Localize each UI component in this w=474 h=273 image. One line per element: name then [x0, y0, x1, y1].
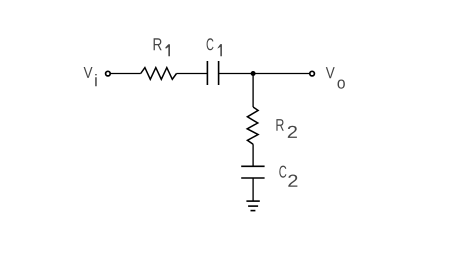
ground — [246, 201, 259, 211]
wire R1 to C1 — [177, 73, 208, 75]
node Vo label — [326, 67, 345, 89]
wire junction down to R2 — [252, 74, 254, 108]
label R2 — [276, 119, 297, 138]
terminal input — [106, 71, 111, 76]
wire Vi terminal to R1 — [111, 73, 141, 75]
capacitor C2 — [241, 166, 264, 178]
label R1 — [154, 38, 170, 56]
wire R2 to C2 — [252, 144, 254, 166]
terminal output — [310, 71, 315, 76]
capacitor C1 — [207, 61, 218, 85]
wire C1 to output terminal — [219, 73, 310, 75]
resistor R2 — [247, 107, 258, 144]
label C2 — [279, 166, 297, 187]
wire C2 to ground — [252, 178, 254, 201]
node junction — [251, 71, 256, 76]
resistor R1 — [141, 68, 177, 80]
node Vi label — [84, 67, 97, 86]
label C1 — [207, 38, 222, 56]
